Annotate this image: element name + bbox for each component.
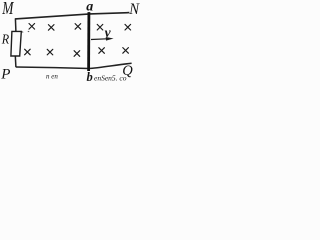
rod ab — [87, 12, 90, 71]
field mark x (bottom row 2) — [47, 49, 53, 55]
field mark x (bottom row 1) — [25, 49, 31, 55]
wire: left side lower segment — [14, 56, 17, 67]
field mark x (top row 1) — [25, 24, 131, 57]
svg-text:b: b — [87, 70, 93, 83]
svg-text:N: N — [128, 1, 140, 18]
wire: bottom rail P-Q — [16, 63, 132, 68]
wire: left side upper segment — [14, 18, 17, 31]
field mark x (top row 4) — [97, 24, 103, 30]
field mark x (top row 2) — [48, 25, 54, 31]
field mark x (bottom row 5) — [123, 48, 129, 54]
velocity arrow — [91, 38, 107, 41]
svg-text:R: R — [1, 33, 10, 48]
svg-text:v: v — [105, 25, 112, 40]
wire: top rail M-N — [15, 13, 129, 19]
svg-text:P: P — [0, 67, 10, 83]
svg-text:M: M — [1, 0, 14, 18]
resistor R (box) — [11, 31, 21, 56]
field mark x (top row 3) — [75, 24, 81, 30]
svg-text:n en: n en — [46, 73, 58, 81]
svg-text:a: a — [86, 0, 93, 15]
svg-text:enSen5. co: enSen5. co — [94, 73, 127, 82]
speck marks near resistor — [22, 31, 29, 32]
field mark x (bottom row 4) — [99, 48, 105, 54]
field mark x (top row 5) — [125, 24, 131, 30]
field mark x (bottom row 3) — [74, 51, 80, 57]
